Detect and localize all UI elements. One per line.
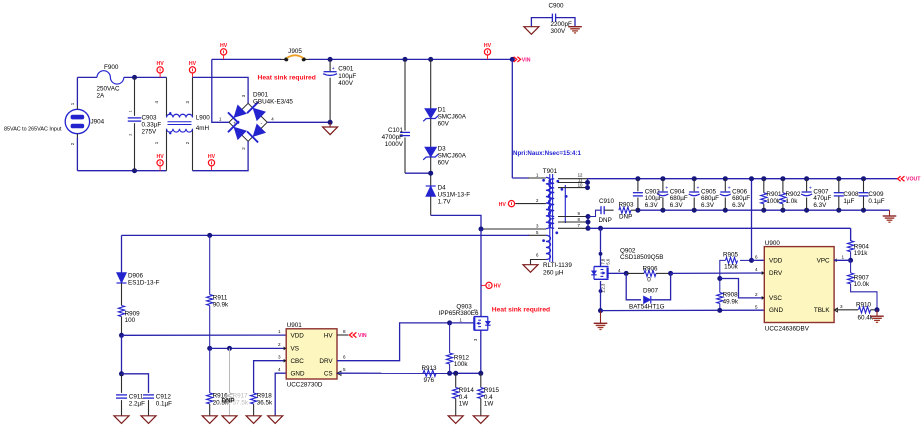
- capacitor C101: [382, 59, 410, 173]
- svg-text:D1: D1: [438, 107, 447, 114]
- svg-text:L900: L900: [196, 115, 211, 122]
- capacitor C907: [801, 176, 831, 213]
- svg-text:VDD: VDD: [291, 332, 305, 339]
- svg-text:CBC: CBC: [291, 358, 305, 365]
- svg-text:D4: D4: [438, 184, 447, 191]
- svg-text:0: 0: [647, 277, 651, 284]
- svg-text:SMCJ60A: SMCJ60A: [438, 152, 467, 159]
- svg-text:6: 6: [755, 254, 758, 259]
- svg-text:85VAC to 265VAC Input: 85VAC to 265VAC Input: [4, 127, 62, 133]
- capacitor C910: [588, 198, 615, 224]
- svg-text:U900: U900: [765, 240, 781, 247]
- svg-text:D3: D3: [438, 145, 447, 152]
- svg-text:60V: 60V: [438, 121, 450, 128]
- svg-text:IPP65R380E6: IPP65R380E6: [439, 310, 479, 317]
- svg-text:1.7V: 1.7V: [438, 198, 452, 205]
- wire DRV route: [337, 323, 450, 361]
- capacitor C904: [657, 176, 687, 213]
- svg-text:DNP: DNP: [222, 398, 235, 405]
- svg-text:1: 1: [129, 110, 133, 112]
- wire VPC: [834, 259, 851, 261]
- svg-text:0.1µF: 0.1µF: [156, 400, 172, 407]
- wire: [76, 77, 78, 170]
- wire drain: [480, 229, 482, 317]
- wire SW to R904: [850, 228, 852, 241]
- svg-text:U901: U901: [287, 322, 303, 329]
- svg-text:1W: 1W: [484, 401, 494, 408]
- node junction: [328, 120, 333, 125]
- wire VS line: [210, 347, 287, 349]
- wire aux: [122, 234, 530, 236]
- label input: [4, 127, 62, 133]
- svg-text:VS: VS: [291, 346, 299, 353]
- capacitor C912: [122, 374, 173, 416]
- svg-text:+: +: [233, 120, 236, 125]
- svg-text:HV: HV: [189, 61, 197, 67]
- HV flag: [208, 154, 216, 171]
- HV flag: [484, 43, 492, 60]
- ground: [268, 416, 283, 424]
- node junction: [403, 57, 408, 62]
- op-amp U901: [278, 322, 346, 389]
- svg-text:UCC28730D: UCC28730D: [287, 382, 323, 389]
- capacitor C903: [128, 77, 162, 170]
- resistor R916: [207, 348, 229, 415]
- wire DRV: [671, 272, 765, 274]
- svg-text:10: 10: [578, 182, 583, 187]
- svg-text:VDD: VDD: [769, 257, 783, 264]
- svg-text:VPC: VPC: [817, 257, 830, 264]
- svg-text:C901: C901: [338, 66, 354, 73]
- svg-text:2: 2: [278, 342, 281, 347]
- svg-text:DRV: DRV: [319, 358, 333, 365]
- svg-text:TBLK: TBLK: [814, 307, 831, 314]
- capacitor C906: [720, 176, 750, 213]
- svg-text:US1M-13-F: US1M-13-F: [438, 191, 471, 198]
- wire sw bus: [586, 214, 591, 231]
- svg-text:+: +: [728, 185, 731, 191]
- resistor R901: [761, 176, 782, 213]
- svg-text:HV: HV: [494, 284, 502, 290]
- svg-text:49.9k: 49.9k: [723, 298, 739, 305]
- wire SW line: [588, 227, 851, 229]
- svg-text:57.5k: 57.5k: [233, 399, 249, 406]
- node junction: [749, 258, 754, 263]
- svg-text:90.9k: 90.9k: [213, 301, 229, 308]
- wire: [511, 59, 513, 178]
- ground: [523, 265, 538, 273]
- node junction: [132, 168, 137, 173]
- wire CS line: [338, 372, 450, 374]
- svg-text:F900: F900: [104, 64, 119, 71]
- capacitor C905: [689, 176, 719, 213]
- node junction: [207, 346, 212, 351]
- connector J904: [65, 102, 104, 145]
- svg-text:D906: D906: [128, 273, 144, 280]
- resistor R908: [717, 272, 739, 311]
- diode D906: [117, 273, 160, 306]
- svg-text:6.3V: 6.3V: [645, 202, 659, 209]
- svg-text:+: +: [809, 185, 812, 191]
- ground: [114, 416, 129, 424]
- svg-text:150k: 150k: [724, 264, 739, 271]
- svg-text:DNP: DNP: [619, 214, 632, 221]
- HV flag: [220, 43, 228, 60]
- ground: [323, 122, 338, 134]
- node junction: [453, 371, 458, 376]
- svg-text:976: 976: [424, 377, 435, 384]
- svg-text:ES1D-13-F: ES1D-13-F: [128, 280, 160, 287]
- wire: [121, 235, 123, 272]
- resistor R910: [834, 302, 877, 322]
- svg-text:100µF: 100µF: [338, 73, 356, 80]
- svg-text:0.33µF: 0.33µF: [142, 122, 162, 129]
- HV flag: [156, 61, 164, 78]
- resistor R906: [626, 266, 670, 284]
- svg-text:GND: GND: [291, 370, 305, 377]
- ground: [141, 416, 156, 424]
- wire source: [480, 330, 482, 373]
- HV flag: [499, 201, 516, 208]
- svg-text:C910: C910: [599, 198, 615, 205]
- svg-text:0.1µF: 0.1µF: [868, 198, 884, 205]
- wire gate: [450, 322, 474, 324]
- capacitor C902: [633, 176, 663, 213]
- wire VDD drop: [749, 176, 754, 260]
- svg-text:R917: R917: [233, 392, 249, 399]
- resistor R909: [118, 306, 140, 336]
- svg-text:2A: 2A: [97, 93, 106, 100]
- node junction: [132, 75, 137, 80]
- svg-text:R918: R918: [257, 392, 273, 399]
- node junction: [428, 57, 433, 62]
- svg-text:C900: C900: [548, 2, 564, 9]
- node junction: [328, 57, 333, 62]
- wire: [212, 59, 229, 122]
- node junction: [207, 233, 212, 238]
- svg-text:T901: T901: [543, 168, 558, 175]
- net VOUT: [898, 176, 922, 183]
- diode D3: [423, 145, 467, 186]
- HV flag: [481, 282, 501, 289]
- svg-text:4700pF: 4700pF: [382, 134, 404, 141]
- svg-text:3: 3: [840, 304, 843, 309]
- svg-text:100k: 100k: [766, 198, 781, 205]
- svg-text:UCC24636DBV: UCC24636DBV: [765, 325, 810, 332]
- resistor R903: [619, 201, 638, 220]
- svg-text:R903: R903: [619, 201, 635, 208]
- ground: [883, 210, 897, 222]
- resistor R917 DNP: [222, 348, 249, 415]
- svg-text:+: +: [697, 185, 700, 191]
- svg-text:J904: J904: [91, 119, 105, 126]
- wire HV pin: [337, 334, 348, 336]
- ground: [473, 416, 488, 424]
- svg-text:+: +: [665, 185, 668, 191]
- wire return rail: [638, 209, 890, 211]
- svg-text:10.0k: 10.0k: [854, 281, 870, 288]
- wire: [431, 215, 481, 229]
- node junction: [717, 276, 722, 281]
- node junction: [227, 346, 232, 351]
- HV flag: [189, 61, 197, 78]
- wire: [193, 141, 249, 170]
- ground: [524, 27, 539, 35]
- resistor R904: [848, 228, 870, 260]
- ground: [870, 310, 884, 323]
- wire GND: [601, 309, 765, 311]
- svg-text:J905: J905: [288, 48, 302, 55]
- svg-text:CS: CS: [324, 370, 333, 377]
- node junction: [119, 371, 124, 376]
- transformer T901: [481, 168, 588, 265]
- node junction: [510, 57, 515, 62]
- wire vout rail: [588, 178, 899, 180]
- svg-text:HV: HV: [220, 43, 228, 49]
- wire: [124, 76, 167, 78]
- transistor Q903: [439, 303, 491, 341]
- svg-text:3: 3: [278, 355, 281, 360]
- svg-text:Heat sink required: Heat sink required: [258, 75, 316, 82]
- svg-text:HV: HV: [484, 43, 492, 49]
- svg-text:260 µH: 260 µH: [543, 269, 564, 276]
- resistor R907: [848, 260, 878, 310]
- wire: [77, 76, 97, 78]
- svg-text:CSD18509Q5B: CSD18509Q5B: [620, 254, 663, 261]
- svg-text:1.0k: 1.0k: [786, 198, 799, 205]
- wire: [121, 335, 123, 374]
- svg-text:6: 6: [343, 355, 346, 360]
- svg-text:Heat sink required: Heat sink required: [492, 307, 550, 314]
- svg-text:4mH: 4mH: [196, 125, 210, 132]
- resistor R918: [251, 361, 287, 416]
- wire: [193, 77, 249, 103]
- wire source: [600, 281, 602, 311]
- node junction: [598, 226, 603, 231]
- resistor R902: [780, 176, 801, 213]
- op-amp U900: [755, 240, 845, 332]
- node junction: [598, 308, 603, 313]
- resistor R911: [207, 235, 229, 348]
- svg-text:4: 4: [755, 267, 758, 272]
- node junction: [428, 171, 433, 176]
- svg-text:DRV: DRV: [769, 270, 783, 277]
- svg-text:SMCJ60A: SMCJ60A: [438, 114, 467, 121]
- svg-text:2: 2: [129, 134, 133, 136]
- bridge rectifier D901: [219, 92, 293, 150]
- node junction: [479, 227, 484, 232]
- svg-text:100: 100: [125, 317, 136, 324]
- svg-text:RLTI-1139: RLTI-1139: [543, 262, 572, 269]
- wire secondary bus: [585, 179, 590, 190]
- wire VDD line: [122, 334, 287, 336]
- fuse F900: [97, 64, 124, 100]
- diode D1: [423, 59, 467, 147]
- svg-text:HV: HV: [324, 332, 334, 339]
- svg-text:5: 5: [755, 304, 758, 309]
- net VIN: [514, 57, 531, 64]
- label heat sink: [492, 307, 550, 314]
- capacitor C911: [116, 374, 145, 416]
- resistor R912: [447, 323, 470, 373]
- ground: [222, 416, 237, 424]
- node junction: [447, 371, 452, 376]
- svg-text:2: 2: [755, 292, 758, 297]
- svg-text:VIN: VIN: [522, 58, 531, 64]
- wire VDD: [752, 259, 765, 261]
- node junction: [119, 333, 124, 338]
- svg-text:400V: 400V: [338, 80, 354, 87]
- svg-text:6.3V: 6.3V: [670, 202, 684, 209]
- capacitor C900: [531, 2, 575, 35]
- svg-text:HV: HV: [156, 61, 164, 67]
- capacitor C901: [323, 59, 356, 122]
- svg-text:DNP: DNP: [599, 217, 612, 224]
- node junction: [875, 307, 880, 312]
- diode D4: [426, 184, 471, 215]
- wire: [309, 58, 512, 60]
- HV flag: [156, 154, 164, 171]
- label T901 value: [543, 262, 572, 277]
- node junction: [447, 320, 452, 325]
- resistor R914: [453, 373, 475, 416]
- svg-text:VSC: VSC: [769, 295, 782, 302]
- label ratio: [513, 150, 581, 157]
- svg-text:VIN: VIN: [358, 333, 367, 339]
- node junction: [848, 258, 853, 263]
- wire GND pin: [275, 373, 286, 416]
- wire: [77, 170, 166, 172]
- ground: [246, 416, 261, 424]
- svg-text:VOUT: VOUT: [906, 177, 921, 183]
- ground: [202, 416, 217, 424]
- svg-text:BAT54HT1G: BAT54HT1G: [629, 303, 665, 310]
- svg-text:GND: GND: [769, 307, 783, 314]
- node junction: [624, 271, 629, 276]
- svg-text:-: -: [261, 120, 263, 126]
- wire drain: [600, 228, 602, 266]
- wire: [212, 58, 281, 60]
- resistor R905: [720, 252, 752, 273]
- svg-text:6.3V: 6.3V: [813, 202, 827, 209]
- ground: [594, 311, 608, 330]
- label heat sink: [258, 75, 316, 82]
- svg-text:275V: 275V: [142, 129, 158, 136]
- svg-text:1µF: 1µF: [843, 198, 854, 205]
- node junction: [717, 308, 722, 313]
- svg-text:1000V: 1000V: [385, 141, 404, 148]
- svg-text:1: 1: [278, 329, 281, 334]
- svg-text:4: 4: [278, 367, 281, 372]
- svg-text:5: 5: [343, 367, 346, 372]
- svg-text:R906: R906: [643, 266, 659, 273]
- wire gate lead: [473, 322, 474, 324]
- diode D907: [626, 273, 670, 310]
- svg-text:300V: 300V: [551, 28, 567, 35]
- svg-text:R910: R910: [856, 302, 872, 309]
- wire: [450, 372, 481, 374]
- svg-text:100k: 100k: [454, 361, 469, 368]
- svg-text:5,6: 5,6: [606, 258, 611, 264]
- wire VSC: [720, 279, 765, 298]
- svg-text:+: +: [332, 66, 335, 72]
- svg-text:191k: 191k: [854, 250, 869, 257]
- svg-text:2.2µF: 2.2µF: [129, 400, 145, 407]
- svg-text:6.3V: 6.3V: [732, 202, 746, 209]
- wire gate: [609, 272, 627, 274]
- svg-text:6.3V: 6.3V: [701, 202, 715, 209]
- svg-text:C903: C903: [142, 115, 158, 122]
- ground: [568, 27, 582, 33]
- svg-text:HV: HV: [499, 202, 507, 208]
- svg-text:R908: R908: [723, 291, 739, 298]
- svg-text:D907: D907: [643, 287, 659, 294]
- svg-text:C101: C101: [388, 127, 404, 134]
- svg-text:R913: R913: [422, 365, 438, 372]
- resistor R913: [422, 365, 438, 384]
- ground: [448, 416, 463, 424]
- wire: [405, 172, 431, 174]
- svg-text:36.5k: 36.5k: [257, 399, 273, 406]
- resistor R915: [478, 373, 500, 416]
- net VIN: [349, 332, 367, 339]
- transistor Q902: [591, 247, 663, 293]
- svg-text:1W: 1W: [459, 401, 469, 408]
- svg-text:1: 1: [842, 254, 845, 259]
- svg-text:250VAC: 250VAC: [97, 86, 120, 93]
- svg-text:Npri:Naux:Nsec=15:4:1: Npri:Naux:Nsec=15:4:1: [513, 150, 581, 157]
- svg-text:8: 8: [343, 329, 346, 334]
- svg-text:D901: D901: [253, 92, 269, 99]
- node junction: [478, 371, 483, 376]
- svg-text:60V: 60V: [438, 159, 450, 166]
- capacitor C909: [859, 176, 885, 213]
- wire: [267, 121, 330, 123]
- jumper J905: [281, 48, 310, 61]
- capacitor C908: [834, 176, 859, 213]
- svg-text:R905: R905: [723, 252, 739, 259]
- inductor L900: [154, 77, 211, 170]
- svg-text:GBU4K-E3/45: GBU4K-E3/45: [253, 99, 293, 106]
- node junction: [668, 271, 673, 276]
